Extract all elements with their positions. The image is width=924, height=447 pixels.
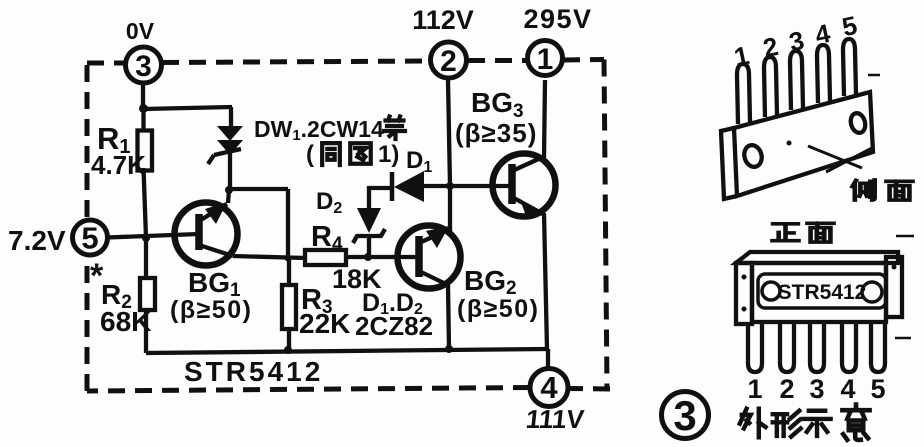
terminal 1 (295V pin) [528, 41, 563, 77]
pointer lines to side label [808, 146, 872, 172]
node J7 [446, 182, 454, 190]
wire zener bottom lead [228, 152, 232, 190]
stray mark right lower [895, 337, 911, 340]
svg-text:2: 2 [440, 45, 457, 78]
node J4 [142, 234, 150, 242]
diode D1 [392, 171, 424, 202]
figure number circle 3 [662, 392, 709, 440]
node J1 [139, 104, 148, 113]
wire J7 to BG3 base [450, 184, 512, 188]
wire R2 bottom lead [144, 310, 148, 353]
wire zener top lead [229, 107, 233, 128]
wire R4 to J6 [346, 255, 368, 259]
wire J7 down to BG2 collector [448, 186, 452, 232]
svg-text:R4: R4 [311, 221, 343, 255]
front view pin 1 [748, 324, 762, 372]
svg-text:2: 2 [760, 31, 780, 63]
wire R1 top lead [141, 109, 145, 131]
wire bottom rail [146, 349, 548, 353]
label outline sketch (wai xing shi yi) [740, 405, 870, 440]
resistor R2 [140, 278, 155, 310]
svg-text:2CZ82: 2CZ82 [355, 311, 433, 341]
terminal 2 (112V pin) [431, 42, 467, 78]
side view pin 4 [817, 45, 830, 103]
svg-text:1: 1 [537, 43, 554, 76]
side view pin 2 [764, 57, 777, 117]
svg-text:3: 3 [135, 50, 152, 83]
label DW1 2CW14 deng [254, 116, 405, 144]
wire J6 to BG2 base [368, 255, 419, 259]
svg-text:(: ( [306, 141, 314, 168]
transistor BG2 [398, 226, 461, 289]
wire terminal3 down [141, 83, 145, 109]
package side view hole right [849, 112, 868, 135]
terminal 3 (0V pin) [126, 47, 162, 83]
svg-text:112V: 112V [412, 5, 474, 35]
svg-text:3: 3 [809, 374, 824, 404]
wire R2 top lead [144, 238, 148, 278]
front view pin 4 [842, 324, 856, 372]
wire R3 top lead [287, 258, 291, 285]
svg-text:DW1.2CW14: DW1.2CW14 [254, 116, 384, 144]
side view pin 3 [790, 51, 803, 110]
svg-text:D2: D2 [316, 188, 342, 217]
svg-text:(β≥50): (β≥50) [170, 296, 252, 324]
wire BG1 collector up [228, 190, 229, 203]
side view pin 5 [843, 39, 856, 96]
svg-text:111V: 111V [524, 404, 586, 434]
front view pin 3 [810, 324, 824, 372]
wire BG2 emitter down [448, 285, 449, 349]
package side view hole left [742, 143, 764, 169]
package front label plate [758, 274, 886, 308]
svg-text:5: 5 [839, 10, 859, 42]
svg-text:4.7K: 4.7K [91, 150, 146, 180]
wire terminal2 down to J7 [448, 80, 450, 186]
dashed IC boundary bottom edge [87, 388, 610, 392]
svg-text:3: 3 [786, 25, 806, 57]
svg-text:22K: 22K [299, 308, 350, 339]
transistor BG3 [493, 154, 556, 220]
front view pin 5 [871, 324, 885, 372]
wire BG1 emitter row [233, 256, 306, 258]
node J6 [364, 253, 372, 261]
stray mark top right [868, 74, 880, 77]
wire terminal5 to BG1 base [107, 234, 199, 238]
svg-text:1): 1) [378, 141, 399, 168]
wire J2 right [229, 187, 288, 191]
wire down to R4 row [286, 189, 290, 258]
svg-text:BG3: BG3 [471, 87, 524, 122]
resistor R1 [138, 131, 153, 171]
svg-text:68K: 68K [100, 306, 151, 337]
wire D2 bottom lead [367, 234, 371, 257]
package side view center mark [787, 141, 792, 146]
svg-text:3: 3 [673, 392, 696, 439]
stray mark right middle [896, 235, 914, 238]
svg-text:D1: D1 [406, 147, 432, 176]
wire BG3 emitter down to bottom rail [544, 213, 547, 349]
side view pin 1 [737, 64, 750, 124]
svg-text:0V: 0V [126, 18, 155, 44]
node J3 [285, 255, 292, 262]
dashed IC boundary left edge [85, 63, 90, 391]
wire R1 bottom lead [144, 168, 147, 238]
dashed IC boundary right edge [604, 60, 607, 390]
terminal 5 (7.2V pin) [73, 220, 108, 256]
svg-text:1: 1 [747, 374, 762, 404]
front view pin 2 [780, 324, 794, 372]
package side view body [721, 92, 873, 199]
node R3-bottom [284, 346, 292, 354]
node J2 [225, 186, 233, 194]
svg-text:STR5412: STR5412 [778, 281, 867, 304]
wire D2 top lead and corner to D1 [369, 188, 392, 208]
zener diode DW1 [208, 126, 243, 164]
label front face (zheng mian) [772, 223, 833, 242]
svg-text:1: 1 [731, 40, 751, 72]
svg-text:4: 4 [812, 18, 833, 50]
svg-text:4: 4 [840, 374, 855, 404]
package front view body [736, 252, 902, 324]
wire top horizontal to zener [143, 107, 232, 109]
zener diode D2 [353, 208, 385, 243]
wire D1 to J7 [424, 184, 450, 188]
dashed IC boundary top edge [87, 60, 604, 64]
svg-text:5: 5 [81, 221, 98, 256]
resistor R3 [282, 285, 296, 329]
label (tong tu 1) [306, 141, 399, 168]
wire R3 bottom lead [287, 329, 291, 351]
svg-text:295V: 295V [523, 4, 592, 34]
svg-text:(β≥35): (β≥35) [455, 118, 537, 148]
svg-text:7.2V: 7.2V [8, 225, 66, 256]
transistor BG1 [175, 202, 238, 266]
svg-text:(β≥50): (β≥50) [457, 295, 539, 323]
resistor R4 [305, 250, 346, 265]
svg-text:5: 5 [870, 374, 885, 404]
node J5 [445, 345, 453, 353]
svg-text:STR5412: STR5412 [184, 356, 323, 387]
label side face (ce mian) [852, 180, 912, 200]
terminal 4 (111V pin) [530, 369, 568, 407]
wire bottom rail corner to terminal4 [546, 349, 550, 369]
svg-text:BG2: BG2 [464, 265, 517, 299]
svg-text:4: 4 [540, 370, 558, 405]
wire terminal1 down to BG3 collector [544, 80, 545, 159]
svg-text:2: 2 [779, 374, 794, 404]
